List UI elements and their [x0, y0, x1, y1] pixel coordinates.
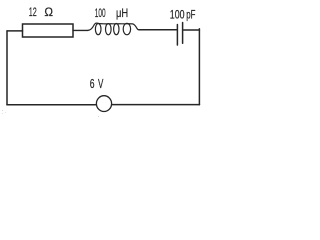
svg-text:6: 6: [90, 78, 95, 92]
svg-text:Ω: Ω: [44, 5, 53, 19]
svg-text:V: V: [98, 77, 104, 91]
svg-text:12: 12: [29, 6, 37, 19]
svg-text:100: 100: [95, 7, 106, 21]
svg-text:pF: pF: [186, 9, 195, 22]
svg-text:100: 100: [170, 8, 185, 22]
svg-text:μH: μH: [116, 7, 128, 20]
